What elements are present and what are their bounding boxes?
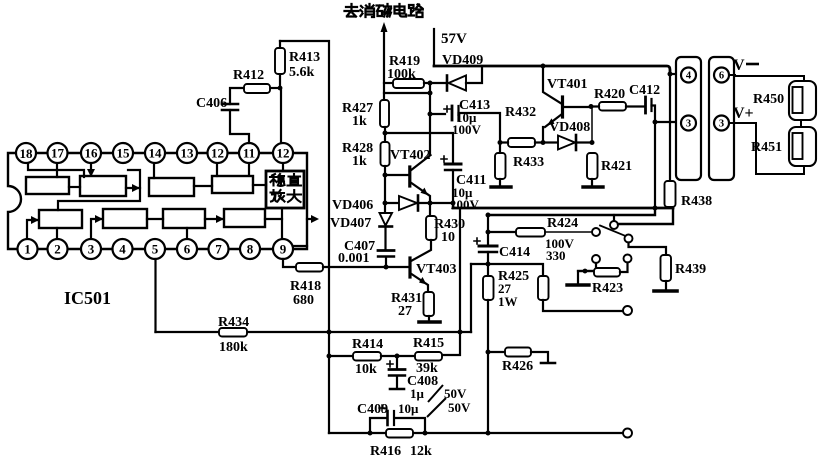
svg-text:R451: R451 [751, 140, 782, 155]
svg-text:R432: R432 [505, 105, 536, 120]
svg-text:680: 680 [293, 293, 314, 308]
svg-text:C412: C412 [629, 83, 660, 98]
svg-text:R423: R423 [592, 281, 623, 296]
svg-text:R421: R421 [601, 159, 632, 174]
svg-text:10k: 10k [355, 362, 377, 377]
svg-text:13: 13 [181, 146, 195, 161]
svg-text:15: 15 [117, 146, 131, 161]
svg-text:R424: R424 [547, 216, 578, 231]
svg-text:330: 330 [546, 248, 566, 263]
svg-text:100V: 100V [450, 197, 480, 212]
svg-text:VT402: VT402 [390, 148, 430, 163]
svg-text:VD407: VD407 [330, 216, 371, 231]
svg-text:C409: C409 [357, 402, 388, 417]
svg-text:R412: R412 [233, 68, 264, 83]
svg-text:VT401: VT401 [547, 77, 587, 92]
svg-text:57V: 57V [441, 31, 467, 47]
svg-text:6: 6 [184, 242, 191, 257]
svg-text:12: 12 [211, 146, 224, 161]
svg-text:5: 5 [152, 242, 159, 257]
svg-text:50V: 50V [448, 400, 471, 415]
svg-text:16: 16 [85, 146, 99, 161]
svg-text:180k: 180k [219, 340, 248, 355]
svg-text:R434: R434 [218, 315, 249, 330]
svg-text:1k: 1k [352, 114, 367, 129]
svg-text:12k: 12k [410, 444, 432, 459]
svg-text:27: 27 [398, 304, 412, 319]
svg-text:VD408: VD408 [549, 120, 590, 135]
svg-text:17: 17 [51, 146, 65, 161]
svg-text:R415: R415 [413, 336, 444, 351]
svg-text:10μ: 10μ [398, 401, 419, 416]
svg-text:VD409: VD409 [442, 53, 483, 68]
svg-text:18: 18 [20, 146, 34, 161]
svg-text:V+: V+ [733, 105, 754, 122]
svg-text:R439: R439 [675, 262, 706, 277]
svg-text:R450: R450 [753, 92, 784, 107]
svg-text:0.001: 0.001 [338, 251, 370, 266]
svg-text:R413: R413 [289, 50, 320, 65]
svg-text:R416: R416 [370, 444, 401, 459]
svg-text:C406: C406 [196, 96, 227, 111]
svg-text:VT403: VT403 [416, 262, 456, 277]
svg-text:11: 11 [243, 146, 255, 161]
svg-text:9: 9 [280, 242, 287, 257]
svg-text:C414: C414 [499, 245, 530, 260]
svg-text:R414: R414 [352, 337, 383, 352]
svg-text:IC501: IC501 [64, 288, 111, 308]
svg-text:1: 1 [24, 242, 31, 257]
svg-text:3: 3 [686, 119, 691, 130]
svg-text:14: 14 [149, 146, 163, 161]
svg-text:VD406: VD406 [332, 198, 373, 213]
svg-text:4: 4 [686, 71, 692, 82]
svg-text:3: 3 [88, 242, 95, 257]
svg-text:12: 12 [277, 146, 290, 161]
svg-text:V: V [733, 57, 745, 74]
svg-text:1μ: 1μ [410, 386, 425, 401]
svg-text:6: 6 [719, 71, 724, 82]
svg-text:4: 4 [119, 242, 126, 257]
svg-text:R418: R418 [290, 279, 321, 294]
svg-text:R438: R438 [681, 194, 712, 209]
svg-text:1k: 1k [352, 154, 367, 169]
svg-text:10: 10 [441, 230, 455, 245]
svg-text:5.6k: 5.6k [289, 65, 315, 80]
svg-text:2: 2 [54, 242, 61, 257]
svg-text:100V: 100V [452, 122, 482, 137]
svg-text:7: 7 [215, 242, 222, 257]
svg-text:R433: R433 [513, 155, 544, 170]
svg-text:8: 8 [247, 242, 254, 257]
svg-text:1W: 1W [498, 294, 518, 309]
svg-text:100k: 100k [387, 67, 416, 82]
svg-text:50V: 50V [444, 386, 467, 401]
svg-text:R420: R420 [594, 87, 625, 102]
svg-text:3: 3 [719, 119, 724, 130]
svg-text:R426: R426 [502, 359, 533, 374]
